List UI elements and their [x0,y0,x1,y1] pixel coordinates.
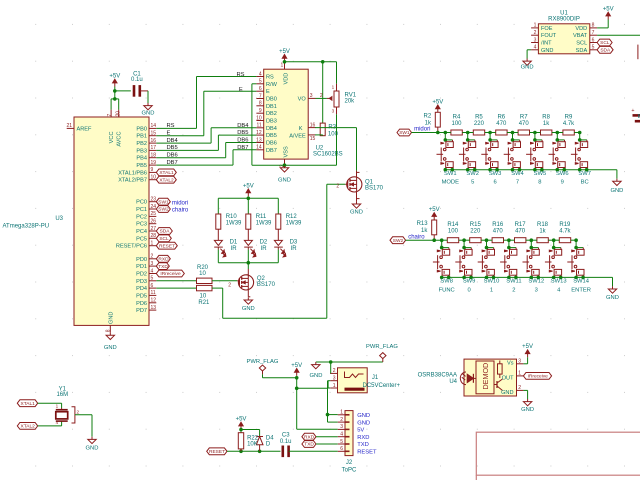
svg-text:VDD: VDD [575,26,587,32]
svg-text:1k: 1k [539,229,546,235]
svg-text:GND: GND [606,295,619,301]
svg-text:SW1: SW1 [158,199,169,205]
svg-text:AVCC: AVCC [117,132,123,147]
svg-text:PB5: PB5 [136,163,147,169]
svg-text:6: 6 [592,37,595,43]
svg-text:RS: RS [237,72,245,78]
svg-text:SW1: SW1 [399,130,410,136]
svg-text:RV1: RV1 [345,92,357,98]
svg-text:4: 4 [340,432,343,438]
svg-text:2: 2 [518,385,521,391]
svg-text:PD1: PD1 [136,264,147,270]
svg-text:IR: IR [231,246,238,252]
svg-text:MODE: MODE [442,180,460,186]
svg-text:5: 5 [592,45,595,51]
svg-text:PWR_FLAG: PWR_FLAG [366,344,398,350]
svg-text:R21: R21 [198,300,210,306]
svg-text:PD2: PD2 [136,272,147,278]
svg-text:470: 470 [496,121,507,127]
svg-text:PC3: PC3 [136,222,147,228]
svg-text:DEMOD: DEMOD [481,363,490,390]
svg-text:SW6: SW6 [556,171,569,177]
svg-text:PD3: PD3 [136,279,147,285]
svg-text:470: 470 [519,121,530,127]
svg-text:PD0: PD0 [136,257,147,263]
svg-text:3: 3 [535,287,538,293]
svg-text:R19: R19 [559,222,571,228]
svg-text:9: 9 [259,108,262,114]
svg-text:D2: D2 [260,239,268,245]
svg-text:7: 7 [259,93,262,99]
svg-text:5: 5 [259,79,262,85]
svg-text:DB5: DB5 [237,130,248,136]
svg-text:DB4: DB4 [167,138,179,144]
svg-text:SW2: SW2 [393,238,404,244]
svg-text:R6: R6 [497,115,505,121]
svg-text:SW8: SW8 [440,279,453,285]
svg-text:1W39: 1W39 [256,221,272,227]
svg-text:1: 1 [490,287,493,293]
svg-text:midori: midori [414,127,430,133]
svg-text:4.7k: 4.7k [563,121,575,127]
svg-text:AREF: AREF [77,126,93,132]
svg-text:SDA: SDA [600,48,611,54]
svg-text:R13: R13 [417,221,429,227]
svg-text:R16: R16 [492,222,504,228]
svg-text:GND: GND [610,188,623,194]
svg-text:2: 2 [151,254,154,260]
svg-text:C3: C3 [282,433,290,439]
svg-text:2: 2 [320,93,323,99]
svg-text:13: 13 [256,137,262,143]
svg-text:VBAT: VBAT [573,33,588,39]
svg-text:D: D [266,441,271,447]
svg-text:RS: RS [266,75,274,81]
svg-text:SCL: SCL [600,40,610,46]
svg-text:R/W: R/W [266,82,278,88]
svg-text:DB6: DB6 [237,138,248,144]
svg-text:15: 15 [310,136,316,142]
svg-text:SW10: SW10 [484,279,500,285]
svg-text:100: 100 [451,121,462,127]
svg-text:+5V: +5V [522,344,533,350]
svg-text:RESET: RESET [159,243,175,249]
svg-text:23: 23 [151,197,157,203]
svg-text:DC5VCenter+: DC5VCenter+ [363,383,401,389]
svg-text:PC2: PC2 [136,214,147,220]
svg-text:XTAL1: XTAL1 [159,170,174,176]
svg-text:PD5: PD5 [136,293,147,299]
svg-text:9: 9 [561,180,564,186]
svg-text:9: 9 [151,167,154,173]
svg-text:SW11: SW11 [506,279,521,285]
svg-text:220: 220 [474,121,485,127]
svg-text:2: 2 [340,417,343,423]
svg-text:RX8900DIP: RX8900DIP [548,16,580,22]
svg-text:8: 8 [105,329,111,332]
svg-text:FOUT: FOUT [541,33,557,39]
svg-text:4: 4 [534,45,537,51]
svg-text:12: 12 [151,298,157,304]
svg-text:+5V: +5V [603,7,614,13]
svg-text:14: 14 [151,123,157,129]
svg-text:+5V: +5V [279,49,290,55]
svg-text:10: 10 [256,115,262,121]
svg-text:4: 4 [557,287,561,293]
svg-text:1W39: 1W39 [286,221,302,227]
svg-text:VCC: VCC [109,132,115,144]
svg-text:RXD: RXD [357,435,369,441]
svg-text:11: 11 [151,290,156,296]
svg-text:A/VEE: A/VEE [289,133,306,139]
svg-text:1k: 1k [543,121,550,127]
svg-text:PWR_FLAG: PWR_FLAG [247,359,279,365]
svg-text:GND: GND [350,210,363,216]
svg-text:5: 5 [340,439,343,445]
svg-text:SW4: SW4 [511,171,524,177]
svg-text:GND: GND [104,345,117,351]
svg-text:7: 7 [592,30,595,36]
svg-text:DB6: DB6 [266,141,277,147]
svg-text:1: 1 [56,404,59,409]
svg-text:U2: U2 [316,145,324,151]
svg-text:DB2: DB2 [266,111,277,117]
svg-text:R4: R4 [453,115,461,121]
svg-text:18: 18 [151,153,157,159]
svg-text:14: 14 [256,145,262,151]
svg-text:ToPC: ToPC [342,467,357,473]
svg-text:GND: GND [242,306,255,312]
svg-text:TXD: TXD [304,442,314,448]
svg-text:1W39: 1W39 [226,221,242,227]
svg-text:3: 3 [333,376,336,382]
svg-text:IRreceive: IRreceive [160,271,181,277]
svg-text:U3: U3 [55,216,63,222]
svg-text:DB5: DB5 [167,145,178,151]
svg-text:DB0: DB0 [266,97,277,103]
svg-text:2: 2 [333,368,336,374]
svg-text:J2: J2 [346,460,353,466]
svg-text:+5V: +5V [236,417,247,423]
svg-text:16: 16 [151,138,157,144]
svg-text:16: 16 [310,122,316,128]
svg-text:SW12: SW12 [528,279,544,285]
svg-text:5: 5 [471,180,474,186]
svg-text:RXD: RXD [304,434,315,440]
svg-text:R18: R18 [537,222,549,228]
svg-text:20k: 20k [345,99,356,105]
svg-text:15: 15 [151,131,157,137]
svg-text:SW13: SW13 [551,279,567,285]
svg-text:VSS: VSS [283,146,289,157]
svg-text:10K: 10K [247,442,258,448]
svg-text:PD7: PD7 [136,308,147,314]
svg-text:Vs: Vs [507,361,514,367]
svg-text:GND: GND [142,111,155,117]
svg-text:R10: R10 [226,214,238,220]
svg-text:R17: R17 [515,222,527,228]
svg-text:8: 8 [538,180,541,186]
svg-text:2: 2 [228,282,231,288]
svg-text:2: 2 [77,410,80,415]
svg-text:21: 21 [66,123,72,129]
svg-text:8: 8 [592,23,595,29]
svg-text:8: 8 [259,101,262,107]
svg-text:10: 10 [199,271,206,277]
svg-text:ATmega328P-PU: ATmega328P-PU [3,224,50,230]
svg-text:2: 2 [534,30,537,36]
svg-text:GND: GND [501,390,513,396]
svg-text:11: 11 [256,123,261,129]
svg-text:DB5: DB5 [266,133,277,139]
svg-text:R11: R11 [256,214,267,220]
svg-text:6: 6 [340,446,343,452]
svg-text:D1: D1 [230,239,238,245]
svg-text:1k: 1k [421,228,428,234]
svg-text:SW2: SW2 [158,207,169,213]
svg-text:SDA: SDA [160,229,171,235]
svg-text:16M: 16M [56,392,68,398]
svg-text:midori: midori [172,200,188,206]
svg-text:BS170: BS170 [257,282,276,288]
svg-text:K: K [299,126,303,132]
svg-text:GND: GND [86,445,99,451]
svg-text:DB7: DB7 [237,145,248,151]
svg-text:13: 13 [151,305,157,311]
svg-text:+5V: +5V [243,183,254,189]
svg-text:1: 1 [151,241,154,247]
svg-text:7: 7 [107,114,113,117]
svg-text:0.1u: 0.1u [280,439,292,445]
svg-text:/INT: /INT [541,41,552,47]
svg-text:26: 26 [151,219,157,225]
svg-text:PB3: PB3 [136,148,147,154]
svg-text:4.7k: 4.7k [559,229,571,235]
svg-text:2: 2 [512,287,515,293]
svg-text:SW7: SW7 [578,171,591,177]
svg-text:XTAL2: XTAL2 [159,177,174,183]
svg-text:3: 3 [310,93,313,99]
svg-text:SW1: SW1 [444,171,457,177]
svg-text:12: 12 [256,130,262,136]
svg-text:100: 100 [448,229,459,235]
svg-text:GND: GND [521,65,534,71]
svg-text:DB7: DB7 [266,148,277,154]
svg-text:PC4: PC4 [136,229,147,235]
svg-text:220: 220 [470,229,481,235]
svg-text:XTAL2: XTAL2 [21,424,36,430]
svg-text:chairo: chairo [172,207,189,213]
svg-text:PB4: PB4 [136,156,147,162]
svg-text:5V: 5V [357,428,364,434]
svg-text:ENTER: ENTER [571,287,591,293]
svg-text:1: 1 [333,383,336,389]
svg-text:PB0: PB0 [136,126,147,132]
svg-text:IR: IR [291,246,298,252]
svg-text:GND: GND [109,312,115,324]
svg-text:FUNC: FUNC [439,287,455,293]
svg-text:0.1u: 0.1u [131,77,143,83]
svg-text:DB3: DB3 [266,119,277,125]
svg-text:7: 7 [516,180,519,186]
svg-text:SW5: SW5 [534,171,547,177]
svg-text:IRreceive: IRreceive [528,374,549,380]
svg-text:10: 10 [151,175,157,181]
svg-text:19: 19 [151,160,157,166]
svg-text:1: 1 [518,371,521,377]
svg-text:PC1: PC1 [136,207,147,213]
svg-text:PC5: PC5 [136,236,147,242]
svg-text:3: 3 [340,424,343,430]
svg-text:R5: R5 [475,115,483,121]
svg-text:R15: R15 [470,222,482,228]
svg-text:RESET/PC6: RESET/PC6 [116,244,147,250]
svg-text:R7: R7 [520,115,528,121]
svg-text:6: 6 [151,283,154,289]
svg-text:RESET: RESET [209,449,225,455]
svg-text:25: 25 [151,211,157,217]
svg-text:20: 20 [115,111,121,117]
svg-text:+: + [631,108,634,114]
svg-text:R2: R2 [424,114,432,120]
svg-text:+5V: +5V [109,74,120,80]
svg-text:E: E [266,89,270,95]
svg-text:470: 470 [515,229,526,235]
svg-text:PD6: PD6 [136,301,147,307]
svg-text:3: 3 [534,37,537,43]
svg-text:24: 24 [151,204,157,210]
svg-text:GND: GND [278,178,291,184]
svg-text:SW3: SW3 [489,171,502,177]
svg-text:GND: GND [310,373,323,379]
svg-text:3: 3 [518,359,521,365]
svg-text:1: 1 [281,63,284,69]
svg-text:RS: RS [167,123,175,129]
svg-text:PC0: PC0 [136,200,147,206]
svg-text:PB1: PB1 [136,134,147,140]
svg-text:1k: 1k [425,121,432,127]
svg-text:2: 2 [336,184,339,190]
svg-text:+5V: +5V [291,363,302,369]
svg-text:E: E [167,131,171,137]
svg-text:10: 10 [200,294,207,300]
svg-text:1: 1 [332,84,335,89]
svg-text:DB7: DB7 [167,160,178,166]
svg-text:XTAL2/PB7: XTAL2/PB7 [118,178,147,184]
svg-text:XTAL1/PB6: XTAL1/PB6 [118,170,147,176]
svg-text:DB4: DB4 [266,126,277,132]
svg-text:3: 3 [151,261,154,267]
svg-text:DB1: DB1 [266,104,277,110]
svg-text:5: 5 [151,276,154,282]
svg-text:SDA: SDA [576,48,588,54]
svg-text:GND: GND [357,420,370,426]
svg-text:+5V: +5V [432,99,443,105]
svg-text:4: 4 [259,71,262,77]
svg-text:4: 4 [151,268,154,274]
svg-text:TXD: TXD [357,442,369,448]
svg-text:VO: VO [298,96,307,102]
svg-text:3: 3 [332,108,335,113]
svg-text:6: 6 [493,180,496,186]
svg-text:SC1602BS: SC1602BS [313,152,343,158]
svg-text:1: 1 [340,410,343,416]
svg-text:+5V: +5V [429,207,440,213]
svg-text:PB2: PB2 [136,141,147,147]
svg-text:17: 17 [151,145,157,151]
svg-text:27: 27 [151,226,157,232]
svg-text:BS170: BS170 [365,185,384,191]
svg-text:DB4: DB4 [237,123,249,129]
svg-text:FOE: FOE [541,26,553,32]
svg-text:SCL: SCL [159,236,169,242]
svg-text:6: 6 [259,86,262,92]
svg-text:PD4: PD4 [136,286,147,292]
svg-text:BC: BC [581,180,589,186]
svg-text:RXD: RXD [158,257,169,263]
svg-text:TXD: TXD [158,264,168,270]
svg-text:XTAL1: XTAL1 [21,401,36,407]
svg-text:1: 1 [534,23,537,29]
svg-text:RESET: RESET [357,450,377,456]
svg-text:chairo: chairo [408,234,425,240]
svg-text:0: 0 [467,287,470,293]
svg-text:R8: R8 [542,115,550,121]
svg-text:SW2: SW2 [466,171,479,177]
svg-text:28: 28 [151,233,157,239]
svg-text:R9: R9 [565,115,573,121]
svg-text:OSRB38C9AA: OSRB38C9AA [418,373,457,379]
svg-text:GND: GND [521,407,534,413]
svg-text:R14: R14 [447,222,459,228]
svg-text:470: 470 [493,229,504,235]
svg-text:SW14: SW14 [573,279,590,285]
svg-text:J1: J1 [372,375,379,381]
svg-text:IR: IR [261,246,268,252]
svg-text:OUT: OUT [502,376,514,382]
svg-text:DB6: DB6 [167,153,178,159]
svg-text:D3: D3 [290,239,298,245]
svg-text:GND: GND [541,48,553,54]
svg-text:SW9: SW9 [463,279,476,285]
svg-text:VDD: VDD [284,73,290,85]
svg-text:GND: GND [357,413,370,419]
svg-text:E: E [239,87,243,93]
svg-text:SCL: SCL [576,41,587,47]
svg-text:U4: U4 [449,379,457,385]
svg-text:R12: R12 [286,214,298,220]
